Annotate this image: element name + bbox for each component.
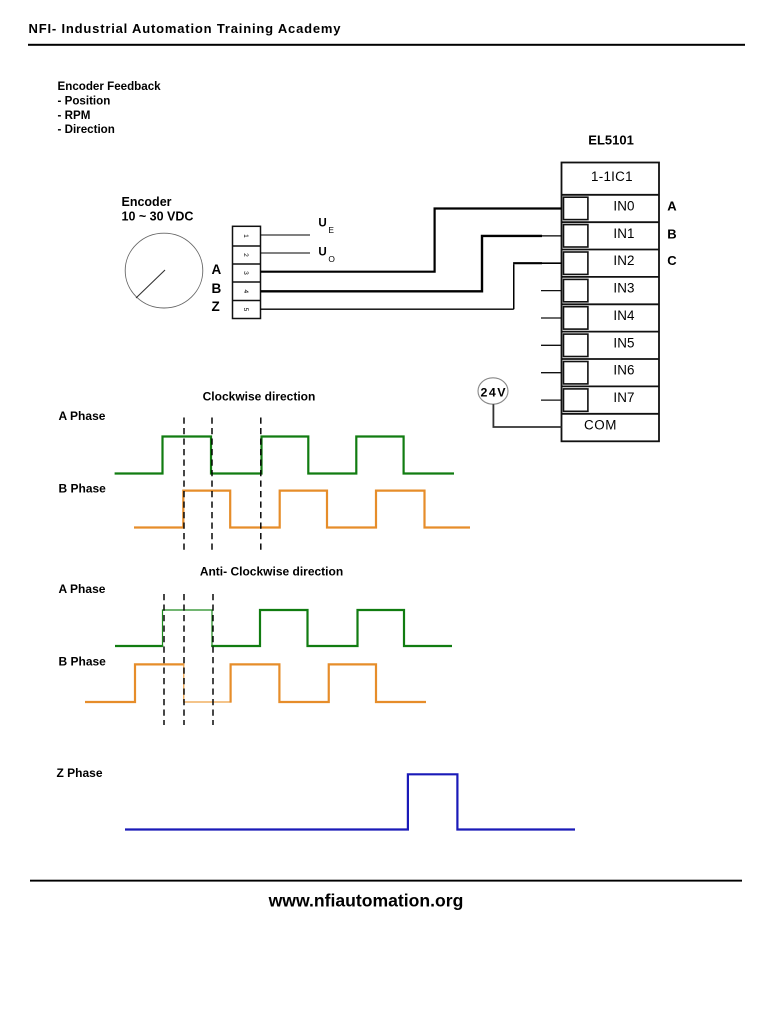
svg-text:B: B <box>212 281 222 296</box>
svg-text:IN5: IN5 <box>613 335 634 350</box>
svg-text:3: 3 <box>242 271 249 275</box>
svg-text:- Direction: - Direction <box>58 123 115 136</box>
svg-text:EL5101: EL5101 <box>588 132 634 147</box>
svg-text:24V: 24V <box>481 385 507 399</box>
svg-text:IN4: IN4 <box>613 308 635 323</box>
svg-text:IN2: IN2 <box>613 253 634 268</box>
svg-text:1: 1 <box>242 234 249 238</box>
svg-text:E: E <box>328 225 334 235</box>
svg-text:Z Phase: Z Phase <box>57 766 103 780</box>
svg-text:U: U <box>318 245 326 258</box>
svg-text:U: U <box>318 217 326 230</box>
svg-text:Encoder Feedback: Encoder Feedback <box>58 80 162 93</box>
svg-text:Clockwise direction: Clockwise direction <box>203 390 316 404</box>
svg-text:4: 4 <box>242 289 249 293</box>
svg-text:- RPM: - RPM <box>58 109 91 122</box>
svg-text:5: 5 <box>242 308 249 312</box>
svg-text:- Position: - Position <box>58 94 111 107</box>
svg-text:C: C <box>667 253 677 268</box>
svg-text:IN7: IN7 <box>613 390 634 405</box>
svg-text:2: 2 <box>242 253 249 257</box>
svg-text:B Phase: B Phase <box>59 654 107 668</box>
svg-text:NFI- Industrial Automation Tra: NFI- Industrial Automation Training Acad… <box>29 21 342 36</box>
svg-text:A Phase: A Phase <box>59 582 106 596</box>
svg-text:COM: COM <box>584 418 617 433</box>
svg-text:A: A <box>212 262 222 277</box>
svg-text:Anti- Clockwise direction: Anti- Clockwise direction <box>200 565 343 579</box>
svg-text:IN3: IN3 <box>613 281 634 296</box>
svg-text:10 ~ 30 VDC: 10 ~ 30 VDC <box>122 209 194 223</box>
svg-text:IN0: IN0 <box>613 199 634 214</box>
svg-text:www.nfiautomation.org: www.nfiautomation.org <box>268 891 464 911</box>
svg-text:B: B <box>667 226 676 241</box>
svg-text:B Phase: B Phase <box>59 482 107 496</box>
svg-text:1-1IC1: 1-1IC1 <box>591 169 633 184</box>
svg-text:Z: Z <box>212 299 220 314</box>
svg-text:Encoder: Encoder <box>122 195 172 209</box>
svg-text:IN6: IN6 <box>613 363 634 378</box>
svg-text:IN1: IN1 <box>613 226 634 241</box>
svg-text:A Phase: A Phase <box>59 409 106 423</box>
svg-text:O: O <box>328 254 335 264</box>
svg-text:A: A <box>667 198 677 213</box>
